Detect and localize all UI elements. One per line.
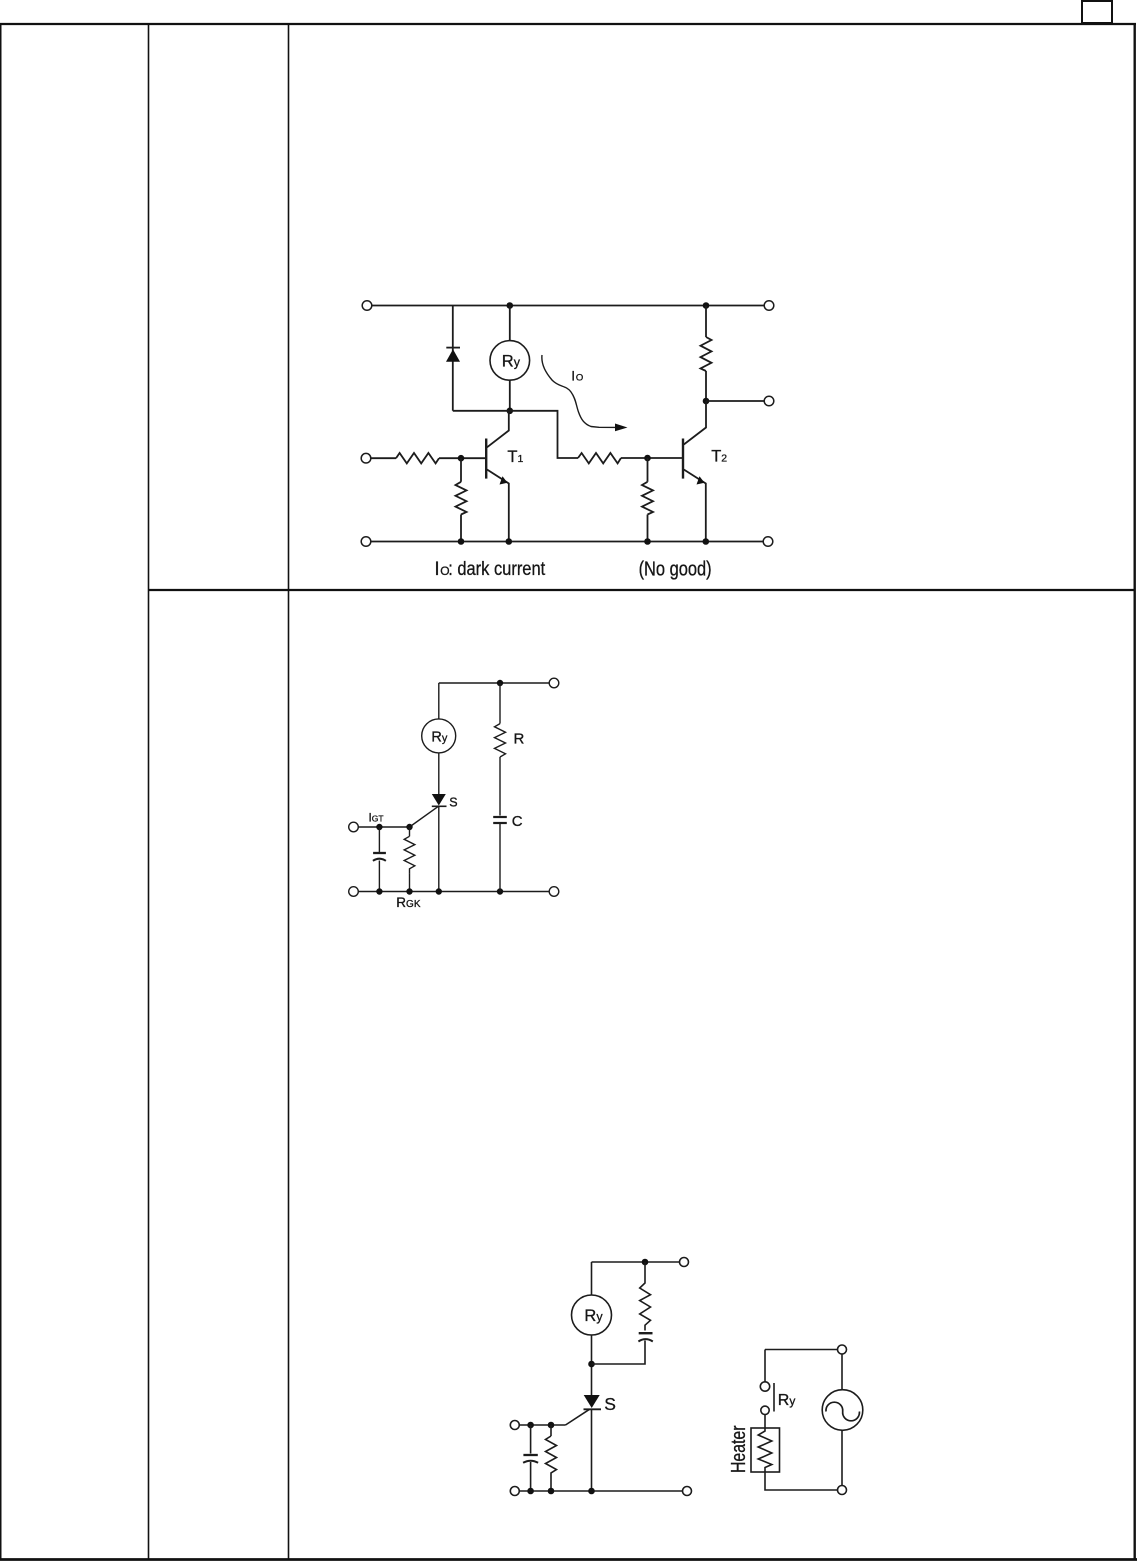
svg-text:Heater: Heater — [728, 1425, 750, 1473]
svg-text:(No good): (No good) — [639, 559, 712, 581]
svg-text:S: S — [604, 1394, 616, 1414]
svg-text:T1: T1 — [507, 448, 523, 466]
svg-text:Ry: Ry — [778, 1392, 796, 1409]
svg-text:: dark current: : dark current — [448, 559, 546, 580]
svg-text:T2: T2 — [711, 448, 727, 466]
svg-text:IO: IO — [571, 368, 583, 384]
svg-text:Ry: Ry — [584, 1307, 603, 1325]
svg-text:S: S — [449, 795, 457, 809]
svg-text:C: C — [512, 813, 523, 830]
svg-text:RGK: RGK — [396, 895, 421, 910]
svg-text:R: R — [514, 731, 525, 748]
svg-text:Ry: Ry — [431, 730, 447, 746]
svg-text:Ry: Ry — [502, 352, 521, 370]
svg-text:IGT: IGT — [369, 813, 384, 825]
